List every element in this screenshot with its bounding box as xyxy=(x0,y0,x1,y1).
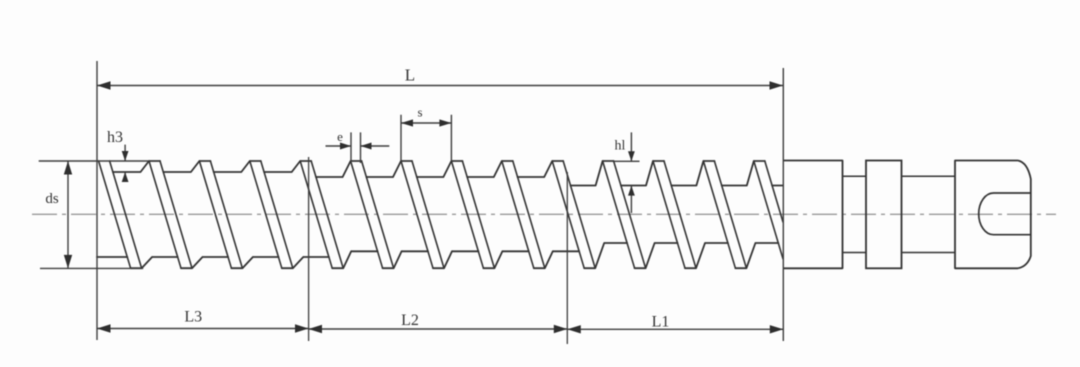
dimension s xyxy=(401,105,451,162)
dimension L xyxy=(97,66,783,90)
shank neck 2 xyxy=(902,176,956,252)
screw flight helical bands xyxy=(99,161,783,268)
section boundary line L2/L1 xyxy=(566,172,568,344)
shank neck 1 xyxy=(843,176,867,252)
dimension e xyxy=(326,129,390,163)
svg-text:ds: ds xyxy=(45,191,59,207)
svg-text:e: e xyxy=(337,129,343,144)
dimension L2 xyxy=(309,312,568,333)
svg-text:s: s xyxy=(417,105,422,120)
svg-text:h3: h3 xyxy=(107,129,123,146)
shank collar xyxy=(866,161,902,269)
right extension line x=783 xyxy=(782,68,784,341)
svg-text:L: L xyxy=(405,66,415,85)
section boundary line L3/L2 xyxy=(308,157,310,341)
shank drive block with chamfers xyxy=(955,161,1031,269)
shank block 1 xyxy=(783,161,843,269)
svg-text:L3: L3 xyxy=(184,309,202,326)
centerline xyxy=(32,213,1056,215)
svg-text:hl: hl xyxy=(615,139,626,154)
dimension L3 xyxy=(97,309,309,333)
dimension L1 xyxy=(567,314,783,334)
keyway slot xyxy=(979,193,1031,235)
svg-text:L2: L2 xyxy=(401,312,419,329)
dimension h1 xyxy=(614,132,640,213)
dimension ds xyxy=(39,161,149,268)
screw flight silhouette (crests and root lines) xyxy=(97,161,783,268)
dimension h3 xyxy=(107,129,129,182)
left extension line x=97 xyxy=(96,61,98,340)
svg-text:L1: L1 xyxy=(652,314,670,331)
